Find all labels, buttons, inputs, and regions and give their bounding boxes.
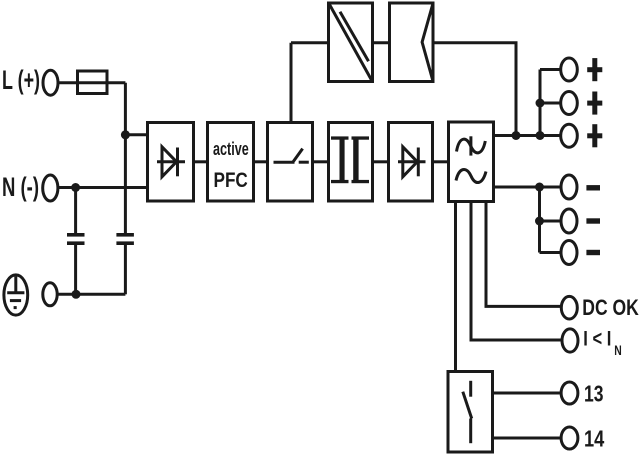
node plus rail A [512,131,521,140]
wire L vertical drop [124,83,127,233]
diode D1 box [389,123,433,202]
terminal I<IN [562,329,578,352]
wire plus rail [494,134,561,137]
isolator U5 box [329,3,373,82]
wire N to rectifier [58,186,148,189]
rectifier U1 box [148,123,194,202]
transformer T1 box [329,123,373,202]
switch U3 box [268,123,313,202]
svg-text:N (-): N (-) [2,172,39,202]
label minus3 [586,250,600,255]
terminal minus3 [561,241,577,265]
wire top to isolator [291,41,329,44]
transformer glyph [331,136,369,183]
svg-text:DC OK: DC OK [582,295,639,320]
wire L to fuse and to vertical [58,81,125,84]
wire isolator to arrow box [373,41,390,44]
wire filter drop 2 to I<IN [471,202,562,341]
filter glyph lower sine [456,169,486,182]
node L-junction [121,130,130,139]
terminal N [43,175,58,201]
diode glyph in U1 [157,147,185,177]
wire arrow box to output rail [433,43,516,136]
terminal 14 [561,427,578,449]
terminal DC OK [561,296,577,319]
node minus rail [535,183,544,192]
wire filter drop 1 to relay [454,202,457,372]
wire PE rail [57,293,125,296]
terminal minus1 [561,175,577,199]
wire relay to 14 [493,437,562,440]
terminal minus2 [561,209,577,233]
svg-text:14: 14 [584,426,604,452]
wire minus rail [494,186,562,189]
wire to terminal minus2 [540,220,562,223]
terminal plus2 [561,92,578,115]
label minus2 [586,218,600,223]
label minus1 [586,185,600,190]
arrow U6 box [390,3,434,82]
earth symbol PE [4,275,28,315]
relay contact glyph [463,381,472,443]
wire to terminal plus2 [540,102,561,105]
isolator diagonal 2 [340,12,369,61]
wire minus branch vertical [538,187,541,253]
switch glyph in U3 [274,149,309,163]
wire diode to filter [433,160,449,163]
active PFC U2 box [208,123,254,202]
terminal L [43,70,58,95]
wire to terminal plus1 [540,68,561,71]
label plus2 [587,92,602,115]
terminal plus3 [561,124,578,147]
node N-junction [71,183,80,192]
fuse F1 [78,71,108,94]
wire N down to C1 [74,188,77,234]
filter glyph upper sine with slash [457,136,486,155]
wire switch to transformer [313,160,329,163]
svg-text:PFC: PFC [214,168,248,192]
wire U1 to PFC [194,160,208,163]
node minus branch [535,217,544,226]
wire to terminal minus3 [540,251,562,254]
wire filter drop 3 to DC OK [486,202,561,307]
wire PFC to switch [254,160,268,163]
diode glyph in D1 [398,147,426,177]
node plus branch [536,99,545,108]
capacitor C2 [116,233,133,245]
wire relay to 13 [493,392,562,395]
node plus rail B [536,131,545,140]
svg-text:L (+): L (+) [2,65,40,95]
label plus3 [587,124,602,147]
node PE-junction [72,290,81,299]
svg-text:I < I: I < I [583,327,611,351]
label plus1 [587,58,602,81]
isolator diagonal 1 [330,5,372,81]
wire plus branch vertical [539,70,542,136]
wire top riser from switch [290,43,293,123]
filter U4 box [449,122,494,202]
svg-text:N: N [614,342,622,358]
terminal PE [43,283,57,306]
terminal 13 [561,382,578,404]
capacitor C1 [67,233,85,245]
svg-text:active: active [213,139,249,159]
arrow wedge glyph [422,4,433,81]
wire C2 to PE rail [124,245,127,294]
wire into rectifier top input [125,133,147,136]
svg-text:13: 13 [584,381,604,407]
wire C1 to PE rail [74,245,77,294]
relay K1 box [448,372,493,453]
terminal plus1 [561,58,578,81]
wire transformer to diode [373,160,389,163]
